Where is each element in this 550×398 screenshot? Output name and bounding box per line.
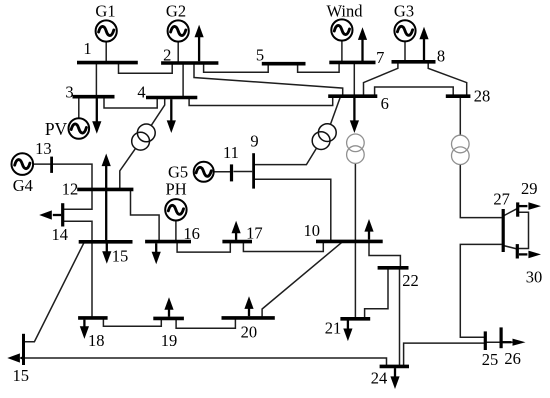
- svg-text:13: 13: [35, 139, 52, 158]
- svg-text:1: 1: [83, 39, 91, 58]
- svg-text:PH: PH: [166, 179, 187, 198]
- svg-text:17: 17: [246, 224, 263, 243]
- svg-text:12: 12: [62, 180, 79, 199]
- svg-text:18: 18: [88, 331, 105, 350]
- svg-text:21: 21: [325, 319, 342, 338]
- svg-text:8: 8: [437, 47, 445, 66]
- svg-text:11: 11: [223, 143, 239, 162]
- svg-text:19: 19: [161, 331, 178, 350]
- svg-text:5: 5: [256, 46, 264, 65]
- svg-text:15: 15: [112, 247, 129, 266]
- svg-text:2: 2: [163, 46, 171, 65]
- svg-text:PV: PV: [45, 119, 68, 139]
- svg-text:14: 14: [51, 225, 68, 244]
- svg-text:4: 4: [137, 83, 145, 102]
- svg-text:3: 3: [65, 82, 73, 101]
- svg-text:28: 28: [474, 87, 491, 106]
- svg-text:27: 27: [493, 190, 510, 209]
- svg-text:G1: G1: [95, 1, 115, 20]
- svg-text:G4: G4: [13, 176, 33, 195]
- svg-text:25: 25: [482, 350, 499, 369]
- svg-text:30: 30: [526, 268, 543, 287]
- svg-text:G3: G3: [394, 1, 414, 20]
- svg-text:26: 26: [504, 349, 521, 368]
- svg-text:16: 16: [183, 224, 200, 243]
- svg-text:10: 10: [304, 221, 321, 240]
- svg-text:9: 9: [250, 131, 258, 150]
- svg-text:Wind: Wind: [327, 1, 364, 20]
- svg-text:24: 24: [371, 369, 388, 388]
- svg-text:20: 20: [241, 322, 258, 341]
- svg-text:29: 29: [521, 179, 538, 198]
- svg-text:22: 22: [402, 271, 419, 290]
- svg-text:15: 15: [13, 366, 30, 385]
- svg-text:G2: G2: [166, 1, 186, 20]
- svg-text:6: 6: [381, 94, 389, 113]
- svg-text:7: 7: [376, 48, 384, 67]
